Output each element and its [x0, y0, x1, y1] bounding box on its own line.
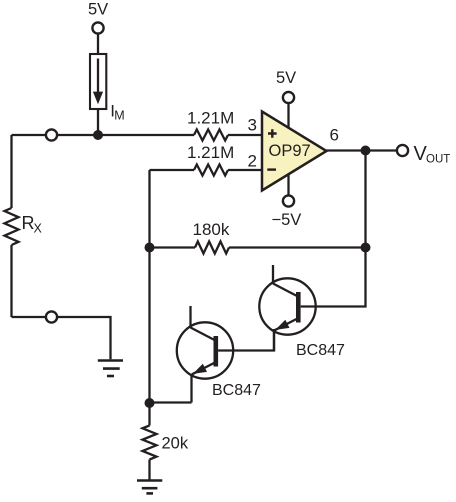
- label 180k: [193, 220, 230, 239]
- node: junction dot 180k right: [361, 243, 371, 253]
- terminal: op-amp +5V open circle: [283, 92, 294, 103]
- wire: bottom-left horizontal to ground branch: [12, 317, 111, 359]
- svg-text:180k: 180k: [193, 220, 230, 239]
- svg-text:5V: 5V: [88, 1, 108, 19]
- svg-text:BC847: BC847: [296, 342, 345, 359]
- svg-text:M: M: [114, 109, 124, 123]
- svg-text:5V: 5V: [276, 69, 296, 87]
- svg-text:20k: 20k: [162, 435, 189, 453]
- label 5V (top-left supply): [88, 1, 108, 19]
- wire: op-amp output to VOUT terminal: [327, 149, 397, 151]
- wire: +5V terminal to op-amp top: [287, 103, 289, 128]
- terminal: VOUT open circle: [397, 145, 408, 156]
- svg-text:1.21M: 1.21M: [187, 109, 234, 128]
- svg-text:2: 2: [248, 152, 257, 171]
- resistor R3 180k: [195, 242, 229, 254]
- wire: inverting input net corner down to 180k node: [148, 170, 150, 248]
- node: junction dot 180k left: [145, 243, 155, 253]
- label pin 2: [248, 152, 257, 171]
- svg-text:−5V: −5V: [272, 211, 302, 229]
- node: junction dot 20k top: [145, 398, 155, 408]
- label - input: [267, 168, 276, 170]
- label -5V: [272, 211, 302, 229]
- wire: output node down to Q2 base: [301, 151, 366, 307]
- op-amp U1 OP97: [262, 112, 327, 191]
- svg-text:6: 6: [330, 126, 339, 145]
- terminal: 5V top-left open circle: [92, 22, 103, 33]
- terminal: op-amp -5V open circle: [283, 195, 294, 206]
- wire: 180k net horizontal: [150, 246, 366, 248]
- wire: pin 2 horizontal: [150, 169, 263, 171]
- label + input: [268, 129, 277, 138]
- wire: node to 20k resistor: [148, 403, 150, 426]
- resistor R1 1.21M (to pin 3): [194, 130, 228, 141]
- svg-text:1.21M: 1.21M: [187, 143, 234, 162]
- ground (bottom, below 20k): [137, 481, 162, 494]
- wire: Q1 base to Q2 emitter: [218, 329, 274, 351]
- label 1.21M (R2): [187, 143, 234, 162]
- resistor R4 20k: [143, 426, 157, 460]
- label 5V (op-amp supply): [276, 69, 296, 87]
- wire: top horizontal net from left corner to op-amp pin 3: [12, 134, 263, 136]
- ground (left, below bottom wire): [98, 361, 123, 377]
- terminal: open circle on top-left wire: [46, 129, 57, 140]
- node: junction dot top wire: [93, 130, 103, 140]
- terminal: open circle on bottom-left wire: [46, 311, 57, 322]
- svg-text:OUT: OUT: [426, 154, 450, 166]
- resistor RX: [5, 208, 19, 245]
- wire: left branch from top wire down through RX to bottom wire: [10, 135, 12, 317]
- label IM: [110, 101, 124, 122]
- label BC847 (Q1): [212, 382, 261, 399]
- wire: op-amp bottom to -5V terminal: [287, 174, 289, 196]
- label 1.21M (R1): [187, 109, 234, 128]
- wire: current source to top wire junction: [97, 109, 99, 135]
- wire: 20k to ground: [148, 460, 150, 481]
- label pin 3: [248, 116, 257, 135]
- svg-text:OP97: OP97: [269, 142, 311, 160]
- wire: 180k node down to 20k node: [148, 248, 150, 404]
- current source IM (rectangle with down arrow): [90, 54, 106, 109]
- wire: Q1 emitter to 20k node: [150, 401, 192, 403]
- svg-text:3: 3: [248, 116, 257, 135]
- resistor R2 1.21M (to pin 2): [194, 165, 228, 176]
- transistor Q2 BC847 (upper right): [259, 265, 315, 351]
- label BC847 (Q2): [296, 342, 345, 359]
- transistor Q1 BC847 (lower left): [177, 306, 233, 403]
- svg-text:BC847: BC847: [212, 382, 261, 399]
- label OP97: [269, 142, 311, 160]
- label pin 6: [330, 126, 339, 145]
- label 20k: [162, 435, 189, 453]
- label RX: [22, 213, 43, 236]
- label VOUT: [414, 143, 451, 166]
- wire: 5V terminal to current source: [97, 34, 99, 54]
- node: output junction dot: [361, 146, 371, 156]
- svg-text:X: X: [34, 222, 43, 236]
